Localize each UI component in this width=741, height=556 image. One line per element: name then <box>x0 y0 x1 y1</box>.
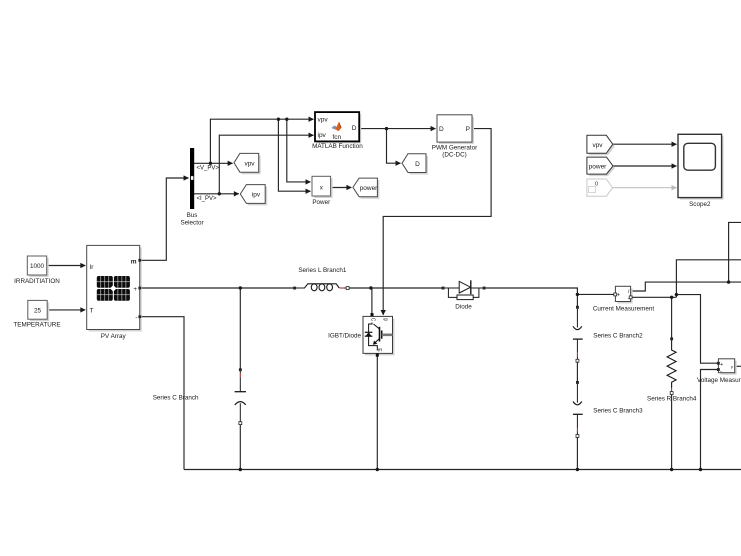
svg-text:D: D <box>352 125 357 132</box>
svg-text:TEMPERATURE: TEMPERATURE <box>13 322 60 329</box>
svg-text:power: power <box>589 164 608 171</box>
svg-text:Series C Branch2: Series C Branch2 <box>593 332 643 339</box>
svg-text:(DC-DC): (DC-DC) <box>442 152 466 159</box>
svg-text:IRRADITIATION: IRRADITIATION <box>14 278 60 285</box>
svg-text:+: + <box>720 362 723 368</box>
svg-text:25: 25 <box>34 308 42 315</box>
svg-text:vpv: vpv <box>318 117 329 124</box>
svg-text:vpv: vpv <box>592 142 603 149</box>
svg-text:PV Array: PV Array <box>101 333 127 340</box>
svg-text:power: power <box>360 185 379 192</box>
svg-text:IGBT/Diode: IGBT/Diode <box>328 333 361 340</box>
svg-text:D: D <box>415 161 420 168</box>
svg-text:Scope2: Scope2 <box>689 201 711 208</box>
svg-text:Voltage Measurement: Voltage Measurement <box>697 377 741 384</box>
svg-text:-: - <box>135 314 137 321</box>
svg-text:Bus: Bus <box>187 212 198 219</box>
svg-text:Power: Power <box>312 199 330 206</box>
svg-text:Current Measurement: Current Measurement <box>593 305 654 312</box>
svg-text:Series C Branch: Series C Branch <box>153 394 199 401</box>
svg-text:Series C Branch3: Series C Branch3 <box>593 408 643 415</box>
svg-text:m: m <box>131 258 137 265</box>
svg-text:Diode: Diode <box>455 304 472 311</box>
svg-text:g: g <box>382 318 388 321</box>
svg-text:Selector: Selector <box>180 220 203 227</box>
svg-text:PWM Generator: PWM Generator <box>432 144 478 151</box>
svg-text:D: D <box>439 126 444 133</box>
svg-text:ipv: ipv <box>318 132 327 139</box>
svg-text:C: C <box>370 318 376 322</box>
svg-text:fcn: fcn <box>332 134 341 141</box>
svg-text:ipv: ipv <box>252 192 261 199</box>
svg-text:<I_PV>: <I_PV> <box>197 196 218 202</box>
svg-text:T: T <box>90 308 94 315</box>
svg-text:MATLAB Function: MATLAB Function <box>312 143 363 150</box>
svg-text:Series R Branch4: Series R Branch4 <box>647 395 697 402</box>
svg-text:+: + <box>133 286 137 293</box>
svg-text:<V_PV>: <V_PV> <box>197 166 220 172</box>
svg-text:Series L Branch1: Series L Branch1 <box>298 267 347 274</box>
svg-text:-: - <box>720 368 722 374</box>
svg-text:vpv: vpv <box>244 161 255 168</box>
svg-text:1000: 1000 <box>30 263 45 270</box>
svg-text:P: P <box>466 126 470 133</box>
